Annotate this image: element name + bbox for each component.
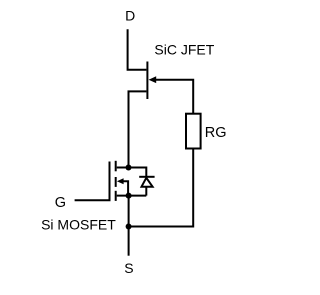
svg-text:D: D: [125, 7, 135, 23]
svg-text:SiC JFET: SiC JFET: [154, 42, 214, 58]
svg-text:RG: RG: [205, 125, 227, 141]
svg-text:G: G: [55, 195, 66, 211]
svg-text:Si MOSFET: Si MOSFET: [41, 216, 116, 232]
svg-text:S: S: [124, 260, 133, 276]
